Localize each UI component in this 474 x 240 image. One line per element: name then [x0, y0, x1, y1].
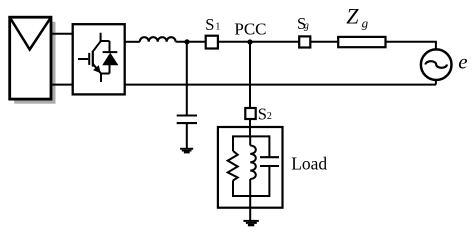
diode D1 cathode lead: [109, 41, 111, 51]
svg-text:Z: Z: [346, 4, 359, 29]
diode D1 cathode bar: [103, 51, 118, 53]
svg-text:S: S: [205, 15, 214, 34]
node A junction dot: [184, 39, 189, 44]
svg-text:Load: Load: [291, 153, 327, 173]
ground under load: [243, 220, 258, 226]
bottom bus wire: [125, 84, 436, 86]
wire S2 to load box: [249, 119, 251, 128]
resistor R zigzag: [228, 151, 238, 181]
resistor R bottom lead: [232, 180, 234, 197]
wire Sg to Zg: [310, 41, 338, 43]
PV panel body: [10, 17, 51, 99]
wire PCC to S2: [249, 42, 251, 107]
load capacitor C2 bottom lead: [268, 166, 270, 197]
IGBT Q1 collector diagonal: [93, 41, 101, 52]
AC source e circle: [421, 49, 452, 80]
wire PV to inverter top: [51, 33, 74, 35]
wire Zg to source corner: [386, 42, 436, 50]
PV panel V mark: [10, 18, 50, 49]
capacitor C1 top plate: [177, 114, 197, 116]
IGBT Q1 emitter arrowhead: [93, 65, 101, 73]
IGBT Q1 gate lead: [78, 58, 88, 60]
diode D1 triangle: [102, 53, 118, 66]
IGBT Q1 top lead: [101, 33, 110, 41]
wire PV to inverter bottom: [51, 84, 74, 86]
load inner top bus: [233, 135, 269, 137]
resistor R leads: [232, 135, 234, 151]
wire inductor to S1: [176, 41, 206, 43]
svg-text:PCC: PCC: [234, 20, 266, 39]
load inductor L2 bottom lead: [249, 179, 251, 196]
ground under capacitor: [180, 148, 193, 154]
load inductor L2 top lead: [249, 136, 251, 145]
switch S2 box: [245, 108, 255, 119]
switch S1 box: [206, 36, 218, 49]
load inner bottom bus: [233, 195, 269, 197]
load capacitor C2 top lead: [268, 135, 270, 157]
AC source sine wave: [426, 61, 447, 68]
svg-text:S: S: [258, 104, 267, 123]
IGBT Q1 body bar: [92, 51, 94, 67]
IGBT Q1 gate bar: [88, 53, 90, 65]
IGBT bottom bar and lead: [101, 74, 110, 83]
svg-text:g: g: [304, 21, 309, 32]
PV panel shadow: [14, 22, 55, 104]
load capacitor C2 plates: [260, 156, 279, 158]
wire load box to ground: [249, 196, 251, 220]
impedance Zg box: [338, 37, 385, 47]
diode D1 anode lead: [109, 65, 111, 74]
svg-text:2: 2: [267, 111, 272, 122]
wire S1 to Sg: [218, 41, 299, 43]
wire junction to capacitor: [186, 42, 188, 115]
svg-text:e: e: [458, 50, 467, 74]
inductor L1: [140, 37, 176, 42]
svg-text:g: g: [362, 16, 369, 31]
node PCC dot: [247, 39, 252, 44]
wire capacitor to ground: [186, 124, 188, 148]
load inductor L2 coil: [250, 146, 256, 180]
IGBT Q1 emitter diagonal: [93, 64, 101, 74]
inverter U1 box: [73, 24, 125, 94]
wire source bottom stub: [435, 80, 437, 85]
wire load entry: [249, 127, 251, 136]
svg-text:1: 1: [215, 22, 220, 33]
load box: [218, 127, 283, 208]
wire inverter to inductor: [125, 41, 140, 43]
capacitor C1 bottom plate: [177, 122, 197, 124]
switch Sg box: [299, 36, 310, 47]
